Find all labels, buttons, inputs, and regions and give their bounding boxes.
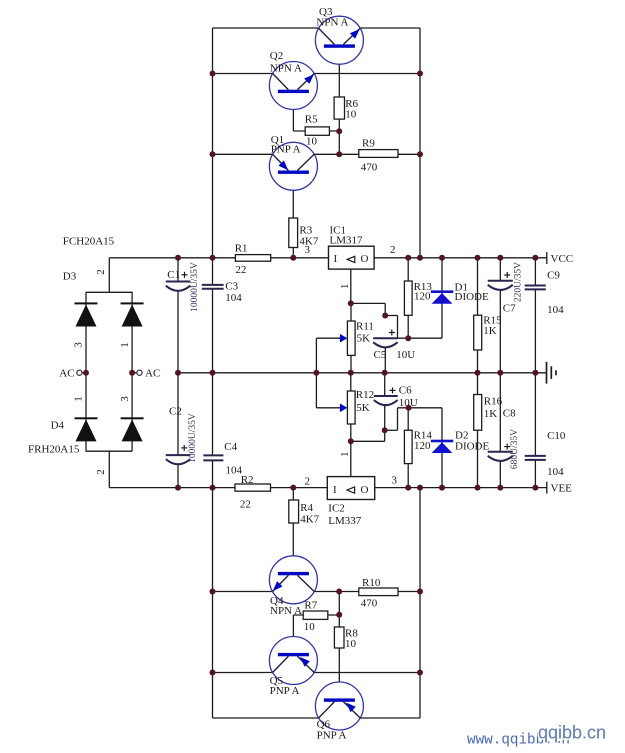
diode D4 left (75, 417, 98, 441)
resistor R7 (303, 611, 328, 619)
label R5 value (305, 114, 318, 148)
junction dots lower section (210, 589, 424, 676)
svg-text:C7: C7 (503, 303, 516, 315)
pin 1 IC2 (339, 451, 351, 457)
resistor R5 (305, 127, 329, 135)
svg-text:R7: R7 (304, 600, 317, 612)
svg-text:O: O (361, 253, 369, 265)
potentiometer R11 (340, 321, 355, 355)
wire right rail lower (419, 488, 421, 718)
transistor Q1 (269, 142, 317, 190)
op-amp U1 regulator IC1 LM317 (329, 246, 375, 269)
svg-text:DIODE: DIODE (455, 440, 489, 452)
pin 2 IC2 (305, 475, 311, 487)
svg-text:R11: R11 (356, 321, 374, 333)
wire D2 column (441, 408, 443, 488)
label D1 (455, 282, 489, 304)
wire Q6 base R8 column (338, 592, 340, 701)
svg-text:PNP A: PNP A (271, 143, 301, 155)
node VEE line (109, 487, 547, 489)
watermark small (467, 733, 570, 749)
label Q3 (316, 6, 348, 29)
label R1 value (235, 243, 248, 277)
svg-text:10000U/35V: 10000U/35V (188, 413, 198, 463)
label FRH20A15 (28, 444, 80, 456)
svg-text:C9: C9 (547, 270, 560, 282)
svg-text:104: 104 (547, 304, 564, 316)
label R16 value (484, 396, 503, 420)
wire C8 column (499, 373, 501, 488)
watermark large (538, 723, 606, 743)
transistor Q2 (269, 62, 317, 110)
wire C7 column (499, 258, 501, 373)
label R4 value (300, 502, 319, 526)
svg-text:10: 10 (304, 621, 316, 633)
label Q6 (317, 718, 347, 741)
label C8 value (503, 408, 520, 469)
svg-text:D4: D4 (51, 420, 65, 432)
wire bottom rail (213, 717, 421, 719)
node AC left terminal (59, 368, 82, 380)
pin 2 bridge bottom (95, 469, 107, 475)
svg-text:10: 10 (345, 109, 357, 121)
svg-text:NPN A: NPN A (270, 63, 302, 75)
diode D3 left (75, 302, 98, 326)
wire R11 column (350, 303, 352, 372)
pin 3 IC1 (305, 244, 311, 256)
label R12 value (356, 389, 374, 414)
resistor R2 (235, 484, 271, 491)
svg-text:22: 22 (235, 264, 246, 276)
svg-text:1: 1 (119, 342, 131, 348)
wire top rail (213, 27, 421, 29)
wire C6 top lead (384, 373, 386, 396)
node VEE terminal (547, 482, 572, 495)
diode D2 (431, 440, 454, 453)
svg-text:1: 1 (339, 451, 351, 457)
resistor R4 (289, 500, 299, 523)
wire bridge right branch (131, 292, 133, 451)
resistor R1 (235, 255, 270, 262)
svg-text:5K: 5K (357, 333, 371, 345)
svg-text:C1: C1 (167, 269, 180, 281)
label C1 value (167, 262, 200, 312)
wire C2 column (177, 373, 179, 488)
svg-text:C5: C5 (374, 349, 387, 361)
wire bridge bottom stub (86, 451, 133, 487)
svg-text:2: 2 (95, 269, 107, 275)
label C9 value (547, 270, 564, 317)
resistor R10 (359, 588, 398, 596)
svg-text:R16: R16 (484, 396, 503, 408)
label Q5 (270, 675, 300, 697)
wire R4 column Q4 base (292, 488, 294, 573)
svg-text:Q6: Q6 (317, 718, 331, 730)
pin 1 bridge upper right (119, 342, 131, 348)
svg-text:2: 2 (390, 244, 396, 256)
pin 3 IC2 (392, 474, 398, 486)
svg-text:470: 470 (361, 598, 378, 610)
label R13 value (414, 281, 433, 303)
svg-text:FCH20A15: FCH20A15 (63, 236, 115, 248)
wire IC1 adj to C5 routing (351, 303, 398, 338)
ground (547, 362, 557, 384)
label D3 (63, 271, 77, 283)
label R2 value (240, 474, 254, 510)
svg-text:3: 3 (305, 244, 311, 256)
svg-text:PNP A: PNP A (270, 685, 300, 697)
svg-text:3: 3 (119, 396, 131, 402)
resistor R15 (474, 315, 482, 350)
svg-text:FRH20A15: FRH20A15 (28, 444, 80, 456)
svg-text:R4: R4 (300, 502, 313, 514)
svg-text:470: 470 (361, 162, 378, 174)
capacitor C2 (166, 445, 191, 464)
resistor R3 (289, 218, 298, 248)
svg-text:AC: AC (59, 368, 74, 380)
label Q4 (270, 595, 302, 617)
svg-text:220U/35V: 220U/35V (514, 262, 524, 302)
wire bridge left branch (85, 292, 87, 451)
wire R3 column Q1 base (292, 174, 294, 258)
label IC2 LM337 (328, 503, 362, 528)
svg-text:R10: R10 (362, 577, 381, 589)
svg-text:NPN A: NPN A (270, 605, 302, 617)
svg-text:D3: D3 (63, 271, 77, 283)
wire Q3 base R6 column (338, 46, 340, 154)
diode D1 (431, 290, 454, 303)
wire adj2 horizontal to D2 (398, 407, 443, 409)
wire bridge top stub (86, 258, 133, 293)
label R8 value (345, 628, 358, 651)
label R7 value (304, 600, 318, 634)
pin 2 bridge top (95, 269, 107, 275)
junction dots adj2 net (348, 405, 412, 445)
pin 3 bridge upper left (73, 342, 85, 348)
op-amp U2 regulator IC2 LM337 (327, 477, 374, 500)
label D4 (51, 420, 65, 432)
svg-text:C6: C6 (399, 385, 412, 397)
svg-text:LM317: LM317 (330, 235, 364, 247)
label C7 value (503, 262, 524, 315)
wire AC left stub (82, 372, 86, 374)
svg-text:2: 2 (305, 475, 311, 487)
label C2 value (169, 406, 198, 463)
wire IC2 pin1 lead (350, 441, 352, 476)
svg-text:680U/35V: 680U/35V (510, 429, 520, 469)
potentiometer R12 (340, 391, 355, 424)
resistor R16 (474, 395, 482, 431)
label C6 value (399, 385, 418, 410)
wire left rail (212, 28, 214, 718)
wire AC right stub (132, 372, 137, 374)
resistor R9 (359, 150, 398, 158)
svg-text:PNP A: PNP A (317, 730, 347, 742)
label R3 value (299, 225, 318, 248)
wire Q4 level with R10 (213, 591, 421, 593)
junction dots VCC line (175, 255, 538, 261)
wire R13 column (407, 258, 409, 338)
wire C6 bottom lead (384, 405, 386, 430)
wire R14 column (407, 408, 409, 488)
capacitor C1 (166, 272, 191, 291)
svg-text:R9: R9 (362, 138, 375, 150)
svg-text:R12: R12 (356, 389, 374, 401)
capacitor C5 (373, 330, 397, 348)
svg-text:3: 3 (73, 342, 85, 348)
svg-text:DIODE: DIODE (455, 291, 489, 303)
label R14 value (414, 430, 433, 453)
svg-text:104: 104 (226, 464, 243, 476)
svg-text:10000U/35V: 10000U/35V (190, 262, 200, 312)
label C5 value (374, 349, 416, 361)
svg-text:4K7: 4K7 (300, 514, 319, 526)
wire pot wiper link (316, 338, 342, 408)
capacitor C9 (525, 286, 546, 290)
wire C9 column (534, 258, 536, 373)
wire Q1 level with R9 (213, 153, 421, 155)
svg-text:C10: C10 (547, 430, 566, 442)
label D2 (455, 430, 489, 453)
wire D1 column (441, 258, 443, 338)
label C3 value (225, 281, 242, 304)
svg-text:1: 1 (339, 284, 351, 290)
svg-text:104: 104 (225, 292, 242, 304)
svg-text:2: 2 (95, 469, 107, 475)
svg-text:1: 1 (73, 396, 85, 402)
transistor Q6 (315, 682, 363, 730)
label FCH20A15 (63, 236, 115, 248)
svg-text:C2: C2 (169, 406, 182, 418)
svg-text:Q2: Q2 (270, 50, 283, 62)
capacitor C4 (203, 455, 223, 460)
wire upper horizontal Q2 level (213, 73, 421, 75)
capacitor C6 (374, 387, 398, 405)
svg-text:104: 104 (547, 466, 564, 478)
pin 3 bridge lower right (119, 396, 131, 402)
label Q1 (271, 134, 301, 156)
junction dots VEE line (175, 485, 538, 491)
node AC right terminal (137, 368, 160, 380)
label Q2 (270, 50, 302, 75)
svg-text:5K: 5K (356, 402, 370, 414)
svg-text:10: 10 (345, 638, 357, 650)
wire IC1 pin1 lead (350, 269, 352, 303)
pin 1 bridge lower left (73, 396, 85, 402)
svg-text:120: 120 (414, 440, 431, 452)
label C10 value (547, 430, 566, 478)
wire Q2 base to R5 (293, 93, 339, 132)
svg-text:qqibb.cn: qqibb.cn (538, 723, 606, 743)
svg-text:R3: R3 (299, 225, 312, 237)
svg-text:C4: C4 (224, 441, 237, 453)
capacitor C8 (488, 444, 513, 461)
resistor R14 (404, 430, 412, 463)
svg-text:R2: R2 (241, 474, 254, 486)
wire lower horizontal Q5 level (213, 672, 421, 674)
label R6 value (345, 98, 358, 121)
wire IC2 adj to C6 routing (351, 408, 398, 442)
junction dots adj1 net (348, 300, 411, 341)
label IC1 LM317 (330, 224, 364, 246)
label R11 value (356, 321, 374, 345)
svg-text:AC: AC (145, 368, 160, 380)
wire C10 column (534, 373, 536, 488)
transistor Q5 (269, 637, 317, 685)
svg-text:VEE: VEE (551, 483, 573, 495)
label C4 value (224, 441, 242, 476)
wire C5 bottom lead (384, 348, 386, 373)
svg-text:22: 22 (240, 498, 251, 510)
resistor R13 (404, 281, 412, 315)
svg-text:VCC: VCC (551, 253, 574, 265)
svg-text:R5: R5 (305, 114, 318, 126)
svg-text:I: I (334, 253, 338, 265)
wire R15 column (477, 258, 479, 373)
wire C1 column (177, 258, 179, 373)
node VCC line (109, 257, 547, 259)
node mid 0V rail (178, 372, 547, 374)
svg-text:C8: C8 (503, 408, 516, 420)
svg-text:1K: 1K (484, 408, 498, 420)
capacitor C10 (525, 456, 546, 460)
transistor Q4 (269, 556, 317, 604)
resistor R6 (334, 97, 344, 119)
label R9 value (361, 138, 378, 174)
svg-text:R1: R1 (235, 243, 248, 255)
capacitor C7 (488, 272, 513, 290)
svg-text:10: 10 (306, 135, 318, 147)
svg-text:NPN A: NPN A (316, 17, 348, 29)
svg-text:1K: 1K (483, 325, 497, 337)
label R15 value (483, 315, 502, 338)
label R10 value (361, 577, 381, 610)
svg-text:I: I (333, 484, 337, 496)
junction dots mid rail (83, 370, 538, 376)
svg-text:120: 120 (414, 291, 431, 303)
svg-text:3: 3 (392, 474, 398, 486)
resistor R8 (334, 627, 344, 648)
junction dots upper section (210, 71, 424, 158)
diode D3 right (121, 302, 144, 326)
wire adj1 horizontal to D1 (373, 337, 442, 339)
svg-text:IC2: IC2 (328, 503, 345, 515)
svg-text:LM337: LM337 (328, 515, 362, 527)
wire Q5 base to R7 (293, 615, 339, 654)
svg-text:10U: 10U (396, 349, 415, 361)
wire R16 column (477, 373, 479, 488)
svg-text:O: O (361, 484, 369, 496)
wire right rail upper (419, 28, 421, 258)
wire R12 column (350, 373, 352, 442)
diode D4 right (121, 417, 144, 441)
pin 2 IC1 (390, 244, 396, 256)
transistor Q3 (315, 16, 363, 64)
capacitor C3 (202, 285, 224, 289)
pin 1 IC1 (339, 284, 351, 290)
node VCC terminal (547, 252, 573, 265)
